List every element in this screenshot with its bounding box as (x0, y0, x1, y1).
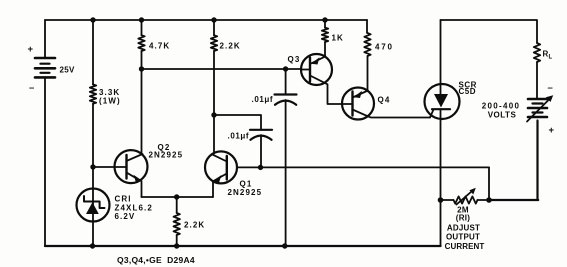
svg-text:VOLTS: VOLTS (488, 111, 517, 120)
svg-text:C5D: C5D (459, 87, 477, 96)
svg-text:Q3,Q4,•GE D29A4: Q3,Q4,•GE D29A4 (117, 255, 195, 265)
svg-text:+: + (28, 44, 35, 55)
svg-text:CURRENT: CURRENT (445, 242, 485, 251)
svg-text:(1W): (1W) (99, 97, 121, 106)
svg-text:2N2925: 2N2925 (149, 151, 184, 160)
svg-text:L: L (549, 55, 553, 61)
svg-text:Q4: Q4 (378, 96, 391, 105)
svg-text:.01μf: .01μf (252, 95, 274, 104)
svg-text:2.2K: 2.2K (220, 42, 241, 51)
svg-text:CRI: CRI (115, 195, 132, 204)
svg-text:2.2K: 2.2K (184, 221, 205, 230)
svg-text:4.7K: 4.7K (149, 42, 170, 51)
svg-text:2N2925: 2N2925 (228, 188, 263, 197)
svg-text:6.2V: 6.2V (115, 212, 136, 221)
svg-text:25V: 25V (60, 66, 75, 75)
svg-text:Q3: Q3 (288, 55, 301, 64)
svg-text:–: – (29, 83, 35, 94)
svg-text:+: + (549, 125, 556, 136)
svg-text:200-400: 200-400 (482, 102, 520, 111)
svg-text:(RI): (RI) (456, 214, 471, 223)
svg-text:OUTPUT: OUTPUT (446, 233, 480, 242)
svg-text:1K: 1K (332, 34, 344, 43)
svg-text:ADJUST: ADJUST (447, 224, 480, 233)
svg-text:470: 470 (375, 43, 394, 52)
svg-text:–: – (548, 83, 554, 94)
svg-text:.01μf: .01μf (228, 132, 250, 141)
